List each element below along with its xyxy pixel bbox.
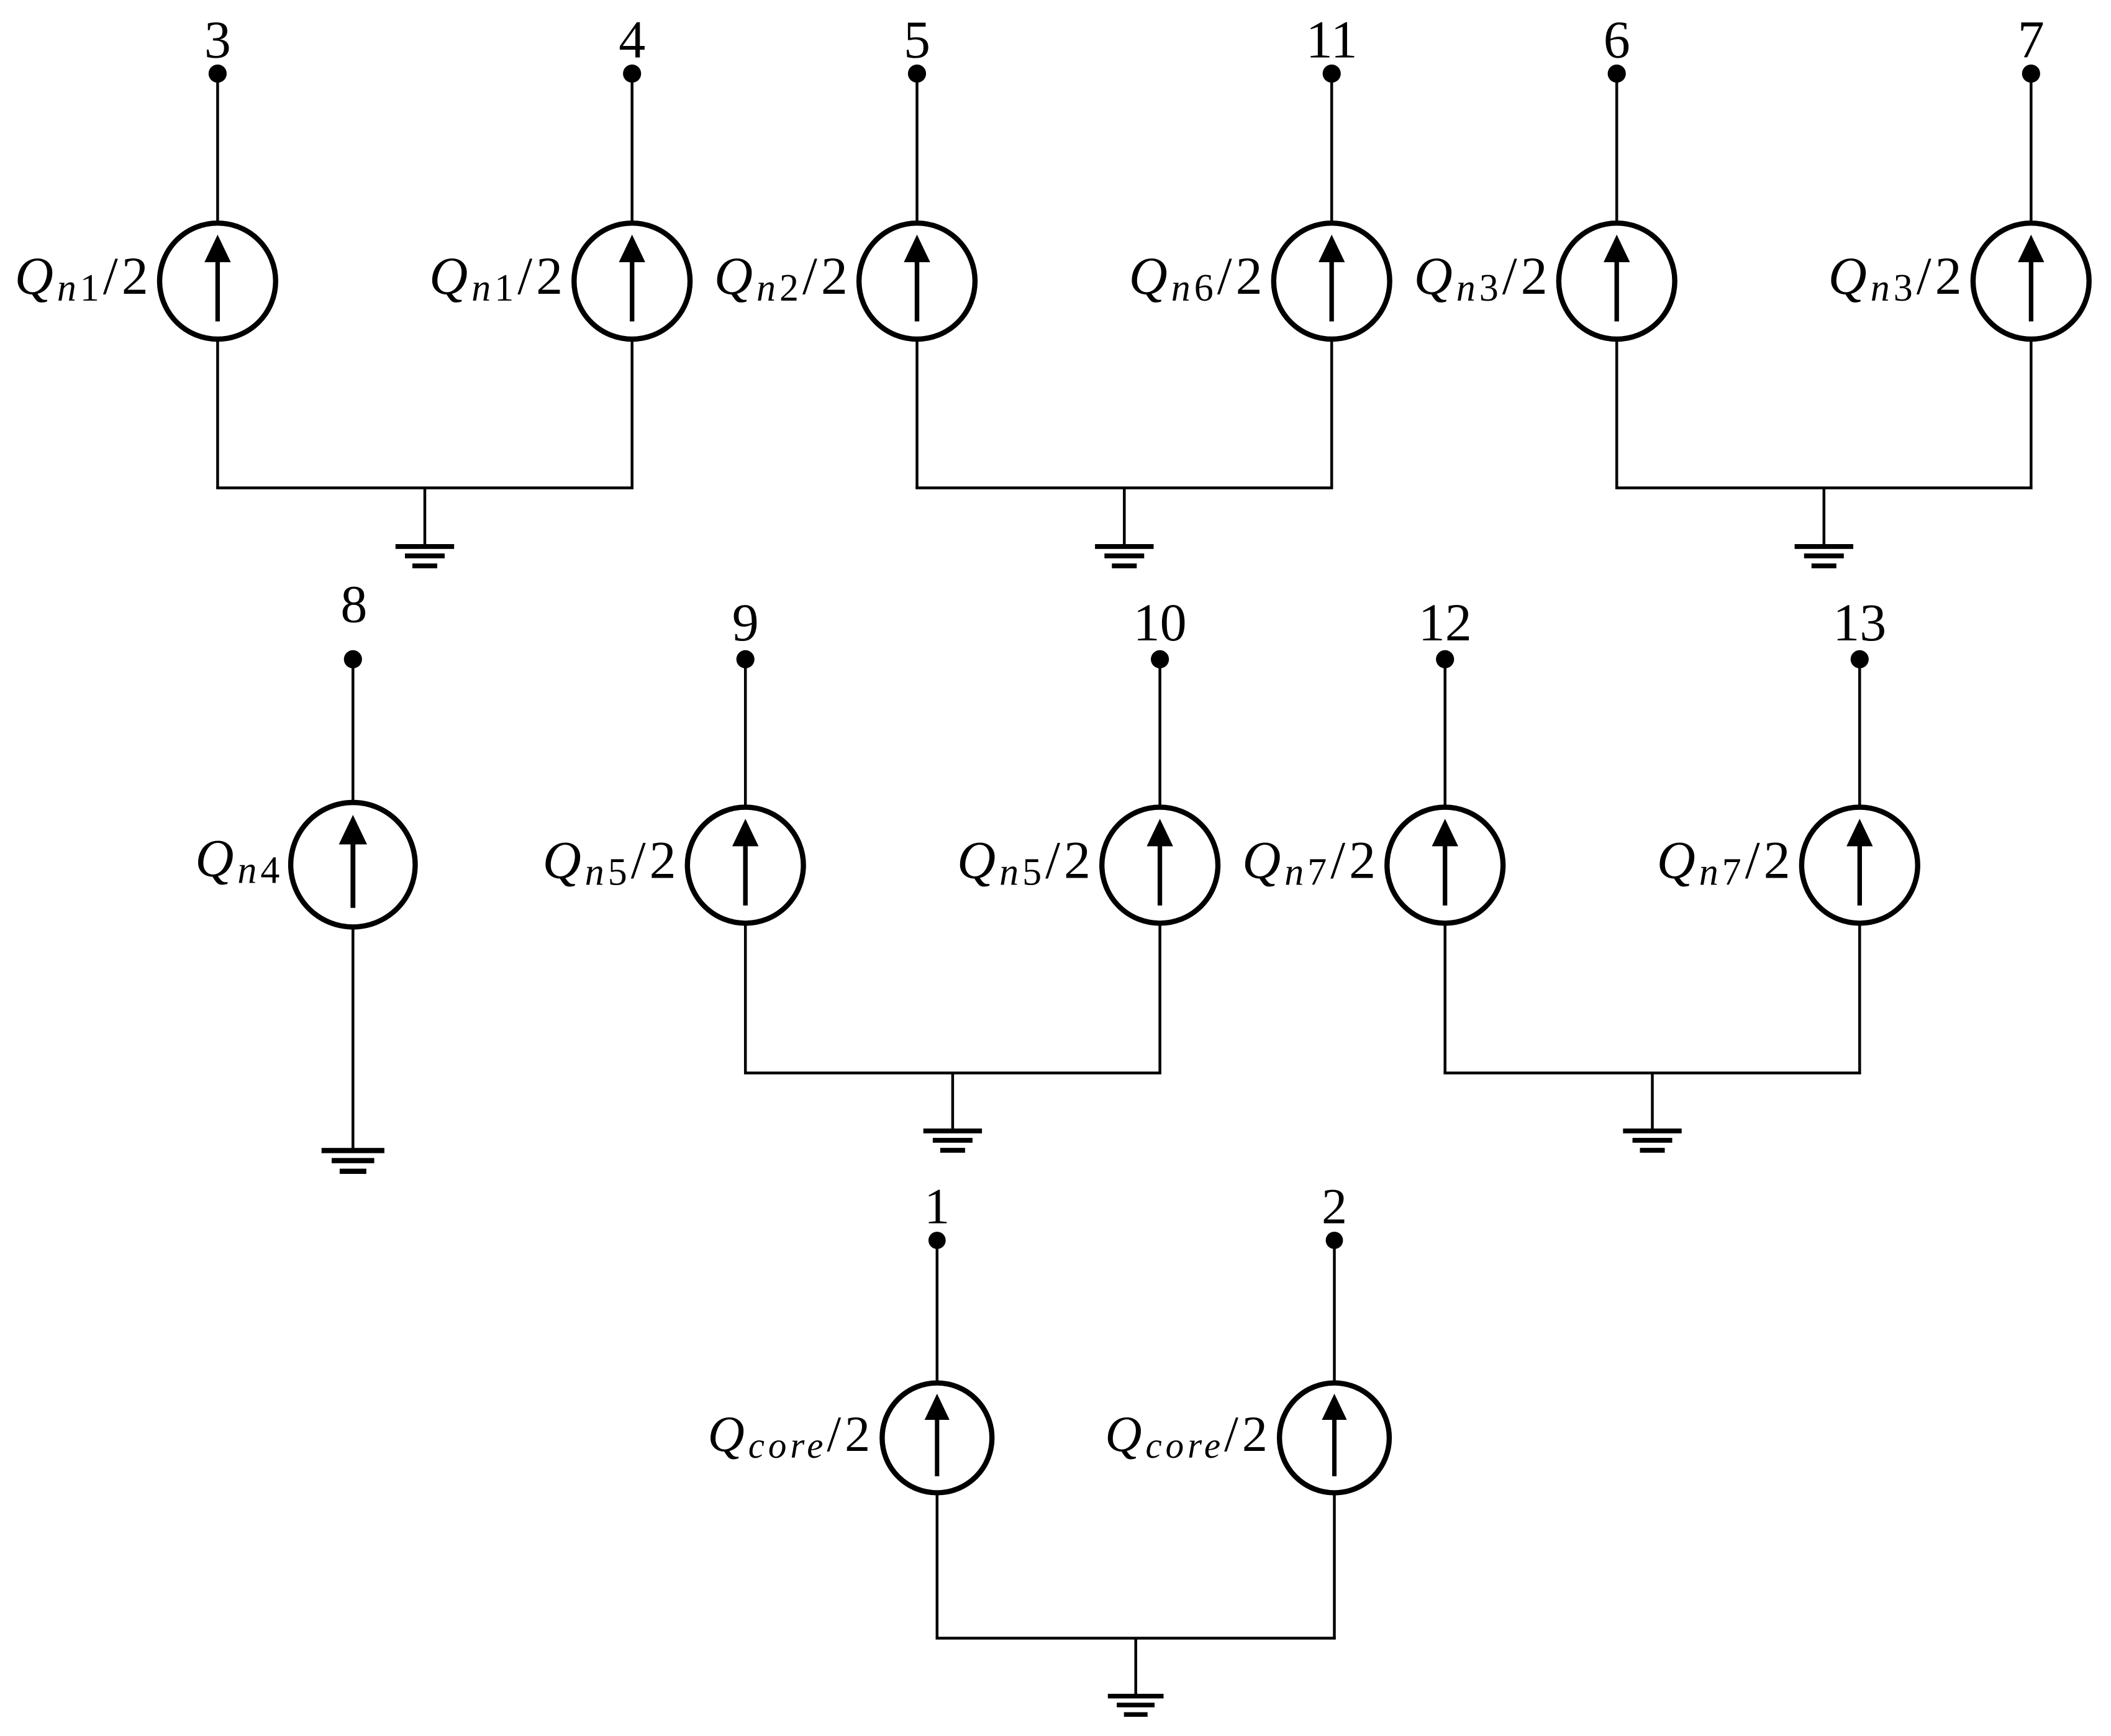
wire node 2 to source	[1333, 1240, 1336, 1381]
node 11 terminal dot	[1323, 65, 1341, 83]
wire node 8 to source	[352, 659, 355, 801]
svg-text:4: 4	[619, 10, 645, 70]
node 7 terminal dot	[2022, 65, 2040, 83]
ground for nodes 5-11	[1095, 544, 1153, 568]
current source I9	[688, 807, 804, 924]
current source I13	[1802, 807, 1918, 924]
node 13 terminal dot	[1851, 650, 1869, 668]
node 10 terminal dot	[1151, 650, 1169, 668]
node 3 terminal dot	[209, 65, 227, 83]
svg-text:12: 12	[1419, 593, 1472, 652]
svg-text:3: 3	[204, 10, 231, 70]
svg-text:9: 9	[732, 593, 759, 652]
wire source 11 to bus	[1330, 340, 1333, 488]
ground stub nodes 5-11	[1123, 488, 1126, 546]
ground for nodes 12-13	[1623, 1129, 1681, 1153]
node 12 terminal dot	[1436, 650, 1454, 668]
current source I5	[859, 223, 975, 339]
svg-text:8: 8	[340, 575, 367, 634]
current source I7	[1973, 223, 2089, 339]
bus wire nodes 9-10	[744, 1071, 1161, 1075]
wire node 11 to source	[1330, 74, 1333, 222]
wire source 6 to bus	[1615, 340, 1618, 488]
current source I3	[160, 223, 276, 339]
svg-text:11: 11	[1306, 10, 1358, 70]
svg-text:6: 6	[1604, 10, 1630, 70]
svg-text:7: 7	[2018, 10, 2045, 70]
svg-text:13: 13	[1833, 593, 1886, 652]
ground for nodes 3-4	[396, 544, 454, 568]
bus wire nodes 12-13	[1443, 1071, 1861, 1075]
ground stub nodes 3-4	[424, 488, 427, 546]
ground stub nodes 1-2	[1134, 1638, 1137, 1696]
current source I8	[291, 802, 415, 927]
wire source 1 to bus	[936, 1494, 939, 1638]
wire node 6 to source	[1615, 74, 1618, 222]
bus wire nodes 1-2	[936, 1637, 1336, 1640]
wire node 3 to source	[216, 74, 219, 222]
wire source 10 to bus	[1158, 925, 1161, 1073]
current source I1	[882, 1383, 992, 1493]
wire source 2 to bus	[1333, 1494, 1336, 1638]
wire node 13 to source	[1858, 659, 1861, 806]
node 8 terminal dot	[344, 650, 362, 668]
svg-text:1: 1	[924, 1178, 950, 1235]
svg-text:2: 2	[1322, 1178, 1347, 1235]
wire source 9 to bus	[744, 925, 747, 1073]
wire source 3 to bus	[216, 340, 219, 488]
wire node 4 to source	[630, 74, 633, 222]
ground stub nodes 6-7	[1823, 488, 1826, 546]
wire node 5 to source	[915, 74, 919, 222]
node 9 terminal dot	[737, 650, 755, 668]
node 5 terminal dot	[908, 65, 926, 83]
current source I2	[1279, 1383, 1389, 1493]
ground for nodes 9-10	[924, 1129, 982, 1153]
current source I10	[1102, 807, 1218, 924]
wire source 4 to bus	[630, 340, 633, 488]
wire node 7 to source	[2030, 74, 2033, 222]
node 4 terminal dot	[623, 65, 641, 83]
node 6 terminal dot	[1608, 65, 1626, 83]
wire node 1 to source	[936, 1240, 939, 1381]
svg-text:10: 10	[1133, 593, 1187, 652]
node 2 terminal dot	[1326, 1232, 1343, 1249]
wire node 9 to source	[744, 659, 747, 806]
bus wire nodes 6-7	[1615, 486, 2033, 489]
ground for nodes 6-7	[1795, 544, 1853, 568]
node 1 terminal dot	[928, 1232, 946, 1249]
current source I4	[574, 223, 690, 339]
current source I6	[1559, 223, 1675, 339]
svg-text:5: 5	[904, 10, 930, 70]
ground stub nodes 12-13	[1651, 1073, 1654, 1130]
bus wire nodes 5-11	[915, 486, 1333, 489]
current source I12	[1387, 807, 1503, 924]
wire source 8 to ground	[352, 929, 355, 1150]
wire source 5 to bus	[915, 340, 919, 488]
wire source 13 to bus	[1858, 925, 1861, 1073]
wire source 7 to bus	[2030, 340, 2033, 488]
wire node 12 to source	[1443, 659, 1446, 806]
ground stub nodes 9-10	[951, 1073, 955, 1130]
wire node 10 to source	[1158, 659, 1161, 806]
current source I11	[1274, 223, 1390, 339]
wire source 12 to bus	[1443, 925, 1446, 1073]
ground for node 8	[322, 1148, 384, 1174]
bus wire nodes 3-4	[216, 486, 633, 489]
ground for nodes 1-2	[1108, 1694, 1164, 1717]
